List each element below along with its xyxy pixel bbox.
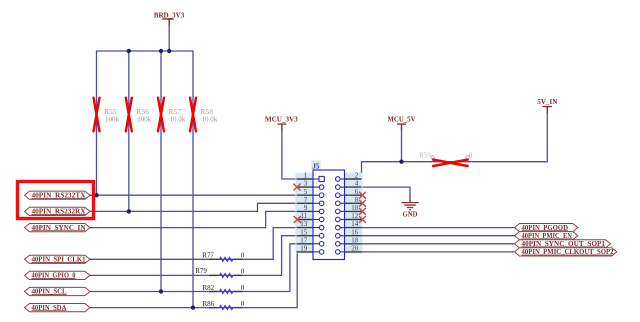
wire pin 16 to 40PIN_PMIC_EN bbox=[362, 235, 515, 237]
svg-text:0: 0 bbox=[241, 252, 245, 260]
pin 8 internal lead bbox=[338, 202, 344, 204]
no-connect X pin 8 bbox=[359, 200, 366, 207]
no-connect X pin 6 bbox=[359, 192, 366, 199]
wire 40PIN_SDA through R86 to pin 19 bbox=[89, 252, 297, 308]
pin 10 internal lead bbox=[338, 210, 344, 212]
wire pin2 to 5V rail to 5V_IN bbox=[362, 113, 548, 179]
wire 40PIN_SPI_CLK1 through R77 to pin 13 bbox=[89, 228, 297, 260]
resistor R58 (DNP crossed out) bbox=[190, 98, 218, 132]
resistor R56 (DNP crossed out) bbox=[126, 98, 152, 132]
svg-text:11: 11 bbox=[300, 212, 307, 220]
resistor R57 (DNP crossed out) bbox=[158, 98, 186, 132]
net label 40PIN_SYNC_OUT_SOP1 bbox=[515, 240, 611, 248]
svg-text:0: 0 bbox=[469, 152, 473, 160]
power symbol MCU_5V bbox=[388, 115, 416, 131]
svg-text:3: 3 bbox=[304, 180, 308, 188]
pin 7 internal lead bbox=[314, 202, 321, 204]
svg-text:0: 0 bbox=[241, 284, 245, 292]
node MCU_5V junction bbox=[399, 160, 403, 164]
pin 1 stub bbox=[297, 178, 314, 180]
pin 20 stub bbox=[345, 251, 362, 253]
svg-text:J5: J5 bbox=[312, 163, 320, 171]
wire pin 18 to 40PIN_SYNC_OUT_SOP1 bbox=[362, 243, 515, 245]
pin 18 stub bbox=[345, 243, 362, 245]
svg-text:R58: R58 bbox=[201, 107, 214, 116]
pin 17 internal lead bbox=[314, 243, 321, 245]
svg-text:17: 17 bbox=[300, 236, 308, 244]
pin 9 internal lead bbox=[314, 210, 321, 212]
pin 14 circle bbox=[336, 225, 341, 230]
pin 6 stub bbox=[345, 194, 362, 196]
svg-text:9: 9 bbox=[304, 204, 308, 212]
wire 40PIN_SYNC_IN to pin 9 bbox=[89, 211, 297, 227]
wire MCU_3V3 to pin 1 bbox=[282, 130, 297, 179]
svg-text:8: 8 bbox=[355, 196, 359, 204]
pin 10 circle bbox=[336, 209, 341, 214]
svg-text:15: 15 bbox=[300, 228, 308, 236]
pin 18 internal lead bbox=[338, 243, 344, 245]
pin 12 circle bbox=[336, 217, 341, 222]
net label 40PIN_PGOOD bbox=[515, 224, 578, 232]
net label 40PIN_SDA bbox=[25, 304, 90, 312]
net label 40PIN_RS232TX bbox=[25, 191, 90, 199]
resistor R55 (DNP crossed out) bbox=[94, 98, 120, 132]
pin 10 stub bbox=[345, 210, 362, 212]
pin 2 stub bbox=[345, 178, 362, 180]
svg-text:5V_IN: 5V_IN bbox=[537, 98, 557, 106]
pin 3 circle bbox=[319, 185, 324, 190]
pin 6 internal lead bbox=[338, 194, 344, 196]
node bus junction R57 bbox=[159, 49, 163, 53]
svg-text:5: 5 bbox=[304, 188, 308, 196]
pin 15 stub bbox=[297, 235, 314, 237]
pin 11 internal lead bbox=[314, 219, 321, 221]
pin 16 circle bbox=[336, 233, 341, 238]
pin 9 stub bbox=[297, 210, 314, 212]
connector J5 body bbox=[313, 170, 345, 260]
pin 8 circle bbox=[336, 201, 341, 206]
node SDA / R58 junction bbox=[191, 305, 195, 309]
power symbol BRD_3V3 bbox=[154, 11, 185, 27]
wire 40PIN_RS232RX to pin 7 bbox=[89, 203, 297, 211]
pin 4 stub bbox=[345, 186, 362, 188]
net label 40PIN_GPIO_0 bbox=[25, 271, 90, 279]
pin 6 circle bbox=[336, 193, 341, 198]
svg-text:R56: R56 bbox=[136, 107, 149, 116]
pin 7 stub bbox=[297, 202, 314, 204]
net label 40PIN_PMIC_CLKOUT_SOP2 bbox=[515, 248, 617, 256]
wire BRD_3V3 to bus bbox=[168, 26, 170, 51]
pin 2 internal lead bbox=[338, 178, 344, 180]
svg-text:R86: R86 bbox=[203, 300, 215, 308]
svg-text:R55: R55 bbox=[104, 107, 117, 116]
pin 19 internal lead bbox=[314, 251, 321, 253]
pin 3 internal lead bbox=[314, 186, 321, 188]
svg-text:GND: GND bbox=[403, 211, 418, 219]
ground GND bbox=[401, 195, 418, 219]
pin 15 internal lead bbox=[314, 235, 321, 237]
svg-text:19: 19 bbox=[300, 245, 308, 253]
svg-text:12: 12 bbox=[351, 212, 359, 220]
svg-text:10.0k: 10.0k bbox=[170, 116, 186, 124]
pin 16 internal lead bbox=[338, 235, 344, 237]
node RS232TX / R55 junction bbox=[94, 193, 98, 197]
svg-text:2: 2 bbox=[355, 172, 359, 180]
connector J5 highlight stripes bbox=[296, 160, 363, 253]
no-connect X pin 12 bbox=[359, 216, 366, 223]
resistor R86 value 0 bbox=[203, 300, 245, 310]
net label 40PIN_SPI_CLK1 bbox=[25, 255, 90, 263]
svg-text:0: 0 bbox=[241, 300, 245, 308]
node RS232RX / R56 junction bbox=[127, 209, 131, 213]
pin 14 internal lead bbox=[338, 227, 344, 229]
power symbol 5V_IN bbox=[537, 98, 557, 114]
wire top bus bbox=[97, 51, 194, 308]
pin 9 circle bbox=[319, 209, 324, 214]
pin 5 circle bbox=[319, 193, 324, 198]
wire 40PIN_SCL through R82 to pin 17 bbox=[89, 244, 297, 292]
pin 7 circle bbox=[319, 201, 324, 206]
wire pin 14 to 40PIN_PGOOD bbox=[362, 227, 515, 229]
pin 17 circle bbox=[319, 242, 324, 247]
pin 13 internal lead bbox=[314, 227, 321, 229]
wire column R57 bbox=[160, 51, 162, 292]
svg-text:18: 18 bbox=[351, 236, 359, 244]
svg-text:6: 6 bbox=[355, 188, 359, 196]
pin 1 internal lead bbox=[314, 178, 321, 180]
wire pin 20 to 40PIN_PMIC_CLKOUT_SOP2 bbox=[362, 251, 515, 253]
selection highlight rectangle around RS232TX/RX bbox=[18, 182, 94, 219]
resistor R77 value 0 bbox=[202, 252, 245, 262]
svg-text:20: 20 bbox=[351, 245, 359, 253]
svg-text:13: 13 bbox=[300, 220, 308, 228]
pin 4 circle bbox=[336, 185, 341, 190]
no-connect X pin 10 bbox=[359, 208, 366, 215]
no-connect X pin 3 bbox=[293, 184, 300, 191]
wire column R56 bbox=[128, 51, 130, 211]
svg-text:0: 0 bbox=[241, 268, 245, 276]
svg-text:R59: R59 bbox=[419, 152, 431, 160]
pin 19 stub bbox=[297, 251, 314, 253]
pin 8 stub bbox=[345, 202, 362, 204]
resistor R82 value 0 bbox=[203, 284, 245, 294]
pin 5 stub bbox=[297, 194, 314, 196]
svg-text:1: 1 bbox=[304, 172, 308, 180]
pin 16 stub bbox=[345, 235, 362, 237]
pin 12 internal lead bbox=[338, 219, 344, 221]
resistor R59 (DNP crossed out) value 0 bbox=[419, 152, 473, 166]
net label 40PIN_SCL bbox=[25, 287, 90, 295]
pin 13 circle bbox=[319, 225, 324, 230]
svg-text:MCU_3V3: MCU_3V3 bbox=[265, 115, 299, 123]
svg-text:100k: 100k bbox=[105, 116, 120, 124]
pin 11 circle bbox=[319, 217, 324, 222]
svg-text:BRD_3V3: BRD_3V3 bbox=[154, 11, 185, 19]
power symbol MCU_3V3 bbox=[265, 115, 299, 131]
pin 19 circle bbox=[319, 250, 324, 255]
no-connect X pin 11 bbox=[294, 216, 301, 223]
node bus junction R56 bbox=[127, 49, 131, 53]
node bus junction BRD_3V3 bbox=[167, 49, 171, 53]
svg-text:R77: R77 bbox=[202, 252, 214, 260]
pin 14 stub bbox=[345, 227, 362, 229]
net label 40PIN_SYNC_IN bbox=[25, 224, 90, 232]
svg-text:100k: 100k bbox=[137, 116, 152, 124]
pin 1 square pad bbox=[319, 176, 324, 181]
svg-text:R57: R57 bbox=[169, 107, 182, 116]
pin 5 internal lead bbox=[314, 194, 321, 196]
pin 20 internal lead bbox=[338, 251, 344, 253]
svg-text:10: 10 bbox=[351, 204, 359, 212]
wire pin4 to GND bbox=[362, 187, 411, 195]
svg-text:10.0k: 10.0k bbox=[202, 116, 218, 124]
pin 4 internal lead bbox=[338, 186, 344, 188]
net label 40PIN_RS232RX bbox=[25, 207, 90, 215]
svg-text:14: 14 bbox=[351, 220, 359, 228]
wire 40PIN_GPIO_0 through R79 to pin 15 bbox=[89, 236, 297, 276]
svg-text:16: 16 bbox=[351, 228, 359, 236]
pin 2 circle bbox=[336, 177, 341, 182]
net label 40PIN_PMIC_EN bbox=[515, 232, 578, 240]
svg-text:R79: R79 bbox=[195, 267, 207, 275]
wire 40PIN_RS232TX to pin 5 bbox=[89, 194, 297, 196]
pin 18 circle bbox=[336, 242, 341, 247]
pin 15 circle bbox=[319, 233, 324, 238]
pin 13 stub bbox=[297, 227, 314, 229]
svg-text:7: 7 bbox=[304, 196, 308, 204]
pin 17 stub bbox=[297, 243, 314, 245]
pin 3 stub bbox=[297, 186, 314, 188]
svg-text:MCU_5V: MCU_5V bbox=[388, 115, 416, 123]
resistor R79 value 0 bbox=[195, 267, 245, 278]
wire MCU_5V drop bbox=[401, 130, 403, 162]
svg-text:R82: R82 bbox=[203, 284, 215, 292]
pin 20 circle bbox=[336, 250, 341, 255]
node SCL / R57 junction bbox=[159, 289, 163, 293]
pin 12 stub bbox=[345, 219, 362, 221]
svg-text:4: 4 bbox=[355, 180, 359, 188]
pin 11 stub bbox=[297, 219, 314, 221]
